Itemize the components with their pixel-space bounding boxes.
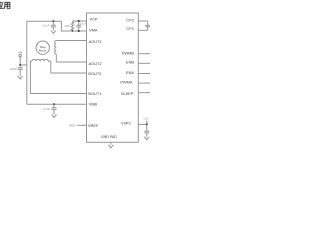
svg-text:VMB: VMB bbox=[89, 101, 98, 106]
node V3P3 bbox=[146, 123, 148, 125]
svg-text:VREF: VREF bbox=[69, 124, 76, 128]
svg-text:1MΩ: 1MΩ bbox=[64, 24, 70, 28]
svg-text:ENA: ENA bbox=[126, 70, 134, 75]
VM terminal circle bbox=[19, 55, 21, 57]
wire VMB bbox=[27, 103, 87, 105]
ground V3P3 cap bbox=[144, 137, 149, 140]
svg-text:AOUT1: AOUT1 bbox=[89, 39, 102, 44]
svg-text:V3P3: V3P3 bbox=[121, 121, 131, 126]
svg-text:PWMB: PWMB bbox=[122, 51, 135, 56]
resistor 1M between VCP and VMA bbox=[71, 21, 73, 31]
capacitor 0.1uF VMB bbox=[52, 104, 57, 114]
wire AOUT1 bbox=[56, 40, 86, 42]
wire BOUT1 bbox=[30, 93, 86, 95]
wire PWMB stub bbox=[138, 53, 150, 55]
motor M1 circle bbox=[36, 41, 49, 54]
svg-text:100uF: 100uF bbox=[10, 67, 18, 71]
svg-text:0.1uF: 0.1uF bbox=[43, 24, 50, 28]
wire CP1 stub bbox=[138, 29, 147, 31]
svg-text:应用: 应用 bbox=[0, 0, 11, 10]
wire AOUT2 bbox=[56, 61, 86, 63]
wire coil A bottom to AOUT2 bbox=[55, 54, 57, 62]
svg-text:Motor: Motor bbox=[39, 48, 47, 52]
wire VM rail vertical bbox=[26, 21, 28, 104]
svg-text:VREF: VREF bbox=[88, 123, 99, 128]
svg-text:CP2: CP2 bbox=[126, 17, 134, 22]
capacitor 0.1uF at VM top bbox=[51, 21, 56, 30]
inductor coil B horizontal bbox=[32, 59, 48, 61]
node cap top bbox=[78, 20, 80, 22]
wire V3P3 up bbox=[146, 121, 148, 125]
wire corner down to VMA line bbox=[61, 21, 86, 31]
svg-text:AOUT2: AOUT2 bbox=[89, 61, 102, 66]
svg-text:BOUT1: BOUT1 bbox=[88, 91, 101, 96]
svg-text:ENB: ENB bbox=[126, 60, 134, 65]
svg-text:GND PAD: GND PAD bbox=[101, 135, 117, 139]
svg-text:VMA: VMA bbox=[89, 28, 98, 33]
op-amp U1 (driver IC body) bbox=[87, 13, 139, 142]
wire VREF stub bbox=[77, 124, 86, 126]
node junction top cap bbox=[52, 20, 54, 22]
node VMB cap bbox=[53, 103, 55, 105]
svg-text:VM: VM bbox=[18, 51, 22, 55]
svg-text:BOUT2: BOUT2 bbox=[88, 71, 101, 76]
capacitor 100uF bbox=[18, 65, 23, 76]
wire SLEEP stub bbox=[138, 92, 150, 94]
ground VM cap bbox=[18, 76, 23, 79]
svg-text:PWMA: PWMA bbox=[120, 80, 133, 85]
wire VCP stub bbox=[73, 20, 87, 22]
ground under IC bbox=[108, 142, 113, 148]
node VM junction bbox=[19, 64, 21, 66]
capacitor 0.1uF VCP-VMA bbox=[76, 21, 81, 31]
svg-text:CP1: CP1 bbox=[126, 26, 134, 31]
capacitor CP flying bbox=[145, 21, 150, 30]
wire PWMA stub bbox=[138, 82, 150, 84]
inductor coil A vertical bbox=[55, 41, 57, 55]
wire coil B left leg bbox=[30, 61, 32, 93]
capacitor V3P3 bbox=[144, 124, 149, 136]
wire V3P3 stub bbox=[138, 123, 147, 125]
wire coil B right leg bbox=[48, 61, 51, 73]
ground VMB cap bbox=[52, 115, 57, 118]
wire ENB stub bbox=[138, 62, 150, 64]
svg-text:0.1uF: 0.1uF bbox=[80, 22, 87, 26]
wire CP2 stub bbox=[138, 20, 147, 22]
wire VM terminal down bbox=[20, 57, 27, 65]
ground top-left cap bbox=[51, 30, 56, 33]
wire ENA stub bbox=[138, 73, 150, 75]
wire top from rail to corner bbox=[27, 20, 62, 22]
wire BOUT2 bbox=[51, 72, 87, 74]
node resistor bottom bbox=[72, 30, 74, 32]
node cap bottom bbox=[78, 30, 80, 32]
svg-text:SLEEP: SLEEP bbox=[121, 91, 134, 96]
svg-text:VCP: VCP bbox=[90, 17, 98, 22]
svg-text:3.3V: 3.3V bbox=[143, 117, 149, 121]
svg-text:0.1uF: 0.1uF bbox=[43, 107, 50, 111]
